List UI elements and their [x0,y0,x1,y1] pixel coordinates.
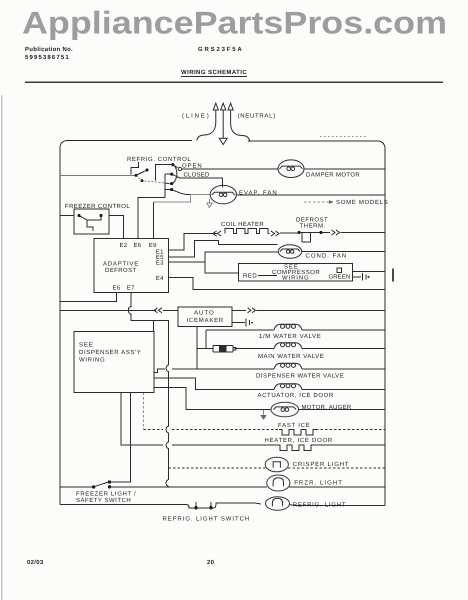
svg-text:FREEZER LIGHT /: FREEZER LIGHT / [76,490,136,497]
svg-text:CRISPER LIGHT: CRISPER LIGHT [293,461,349,468]
svg-text:AppliancePartsPros.com: AppliancePartsPros.com [22,5,447,41]
svg-text:MOTOR, AUGER: MOTOR, AUGER [302,404,352,411]
svg-text:20: 20 [207,559,215,566]
svg-text:ICEMAKER: ICEMAKER [187,317,224,324]
svg-text:OPEN: OPEN [182,162,202,169]
svg-text:EVAP. FAN: EVAP. FAN [239,189,277,196]
svg-text:RED: RED [243,273,257,280]
svg-text:DEFROST: DEFROST [105,267,137,274]
svg-text:FREEZER CONTROL: FREEZER CONTROL [65,203,130,210]
svg-text:COIL HEATER: COIL HEATER [221,221,264,228]
svg-text:ADAPTIVE: ADAPTIVE [103,260,139,267]
svg-text:AUTO: AUTO [194,310,214,317]
svg-text:DISPENSER ASS'Y: DISPENSER ASS'Y [79,349,141,356]
svg-text:ACTUATOR, ICE DOOR: ACTUATOR, ICE DOOR [258,392,334,399]
svg-text:(LINE): (LINE) [182,113,209,120]
svg-text:REFRIG. LIGHT: REFRIG. LIGHT [293,502,346,509]
svg-text:DAMPER MOTOR: DAMPER MOTOR [306,171,360,178]
svg-text:5995386751: 5995386751 [25,54,69,61]
svg-text:E6: E6 [134,242,142,249]
svg-text:E7: E7 [127,285,135,292]
svg-text:MAIN WATER VALVE: MAIN WATER VALVE [258,353,324,360]
svg-text:HEATER, ICE DOOR: HEATER, ICE DOOR [265,437,333,444]
svg-text:DEFROST: DEFROST [296,217,328,224]
svg-text:E3: E3 [156,260,164,267]
svg-text:1/M WATER VALVE: 1/M WATER VALVE [259,333,321,340]
svg-text:WIRING: WIRING [79,357,105,364]
svg-text:WIRING SCHEMATIC: WIRING SCHEMATIC [181,69,247,76]
svg-text:REFRIG. CONTROL: REFRIG. CONTROL [127,156,191,163]
svg-text:Publication No.: Publication No. [25,46,73,53]
svg-text:THERM.: THERM. [300,223,326,230]
svg-text:E9: E9 [149,242,157,249]
svg-text:SOME MODELS: SOME MODELS [336,199,388,206]
svg-text:DISPENSER WATER VALVE: DISPENSER WATER VALVE [256,373,344,380]
svg-text:GREEN: GREEN [329,274,351,281]
svg-text:CLOSED: CLOSED [184,171,210,178]
svg-text:WIRING: WIRING [282,275,309,282]
svg-text:SAFETY SWITCH: SAFETY SWITCH [76,497,131,504]
svg-text:E2: E2 [120,242,128,249]
svg-text:(NEUTRAL): (NEUTRAL) [238,113,276,120]
svg-text:FAST ICE: FAST ICE [278,422,310,429]
svg-text:SEE: SEE [79,342,93,349]
svg-text:FRZR. LIGHT: FRZR. LIGHT [294,480,342,487]
svg-text:E4: E4 [156,275,164,282]
svg-text:COND. FAN: COND. FAN [306,253,347,260]
svg-text:REFRIG. LIGHT SWITCH: REFRIG. LIGHT SWITCH [163,516,250,523]
svg-text:E6: E6 [113,285,121,292]
svg-text:02/03: 02/03 [27,559,44,566]
